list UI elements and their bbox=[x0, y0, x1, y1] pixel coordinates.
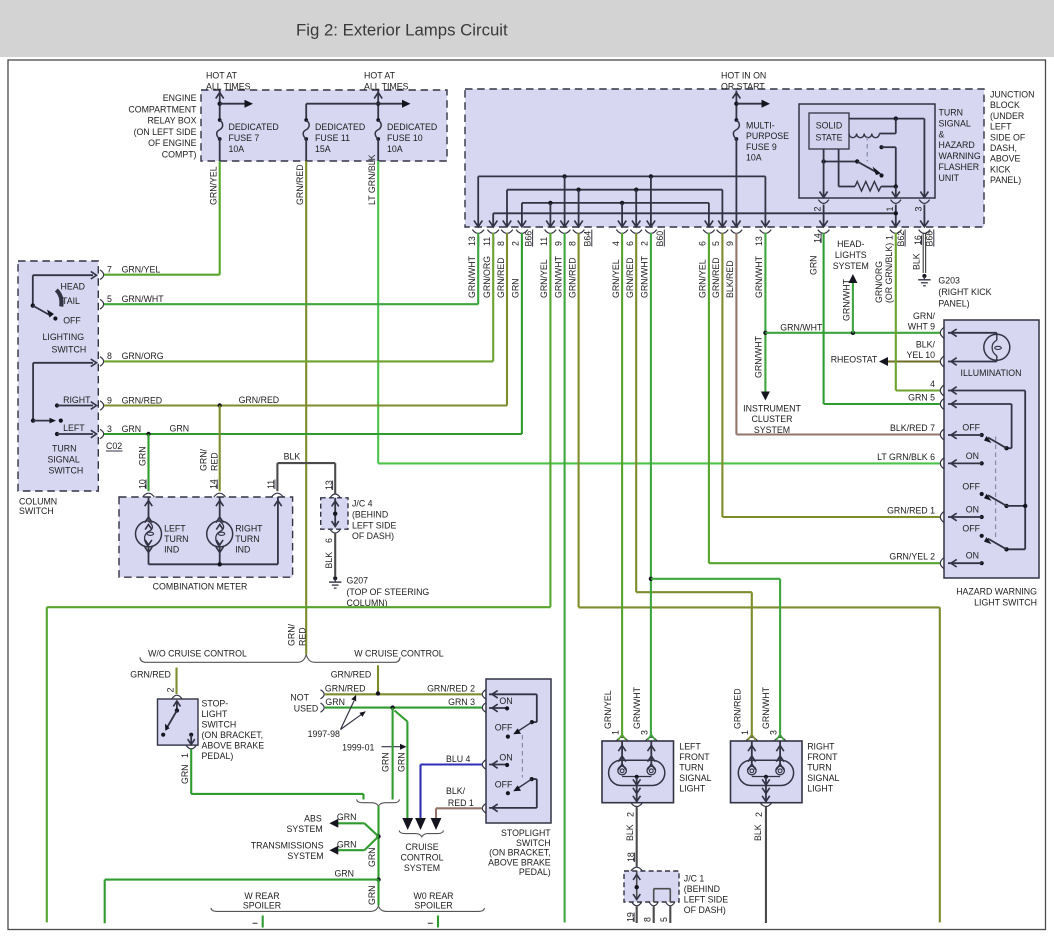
svg-text:GRN/ORG: GRN/ORG bbox=[122, 351, 164, 361]
svg-text:GRN: GRN bbox=[170, 424, 190, 434]
riser GRN/RED to junction pin 8 bbox=[506, 233, 508, 406]
dedicated fuse 7 10A bbox=[218, 118, 222, 122]
stoplight switch arm 2 bbox=[532, 778, 537, 780]
svg-text:5: 5 bbox=[711, 241, 721, 246]
svg-text:LEFT SIDE: LEFT SIDE bbox=[684, 894, 728, 904]
brace w rear spoiler / w0 rear spoiler bbox=[211, 906, 484, 911]
engine compartment relay box bbox=[201, 90, 447, 161]
svg-text:OFF: OFF bbox=[962, 423, 980, 433]
column switch box bbox=[18, 261, 98, 491]
svg-text:GRN/WHT: GRN/WHT bbox=[122, 294, 165, 304]
svg-text:BLK/RED: BLK/RED bbox=[725, 260, 735, 298]
svg-text:ON: ON bbox=[499, 696, 512, 706]
svg-text:GRN/WHT: GRN/WHT bbox=[632, 686, 642, 729]
feed arrow fuses 11/10 bbox=[377, 91, 379, 121]
svg-text:10A: 10A bbox=[387, 144, 403, 154]
svg-text:LEFT: LEFT bbox=[679, 742, 701, 752]
svg-text:GRN/RED: GRN/RED bbox=[625, 257, 635, 298]
junction block pin 2 (GRN) bbox=[521, 221, 523, 227]
meter pin 10 bbox=[143, 493, 155, 497]
node on GRN row bbox=[146, 432, 150, 436]
svg-text:3: 3 bbox=[107, 424, 112, 434]
svg-text:TAIL: TAIL bbox=[62, 296, 80, 306]
svg-text:2: 2 bbox=[754, 812, 764, 817]
svg-text:GRN: GRN bbox=[180, 764, 190, 784]
svg-text:SWITCH: SWITCH bbox=[19, 506, 54, 516]
svg-text:2: 2 bbox=[640, 241, 650, 246]
hazard warning light switch box bbox=[944, 320, 1039, 578]
svg-text:4: 4 bbox=[611, 241, 621, 246]
svg-text:2: 2 bbox=[813, 207, 823, 212]
wire GRN 1997-98 branch down to merge bbox=[392, 708, 394, 800]
svg-text:BLK: BLK bbox=[911, 253, 921, 270]
svg-text:B64: B64 bbox=[583, 231, 593, 247]
svg-text:ON: ON bbox=[966, 505, 979, 515]
svg-text:MULTI-: MULTI- bbox=[746, 121, 775, 131]
svg-text:GRN/YEL: GRN/YEL bbox=[698, 259, 708, 298]
column switch pin 7 row (GRN/YEL) bbox=[100, 270, 104, 280]
svg-text:BLK/RED 7: BLK/RED 7 bbox=[890, 423, 935, 433]
wire BLK junction pin 16 to ground G203 bbox=[922, 234, 924, 274]
svg-text:HAZARD: HAZARD bbox=[939, 140, 975, 150]
svg-text:15A: 15A bbox=[315, 144, 331, 154]
svg-text:W0 REAR: W0 REAR bbox=[413, 891, 453, 901]
meter pin 11 bbox=[272, 493, 284, 497]
svg-text:GRN/: GRN/ bbox=[199, 448, 209, 471]
svg-text:GRN/WHT: GRN/WHT bbox=[754, 255, 764, 298]
hazard switch 1 (pins 7/6) bbox=[1004, 446, 1008, 450]
junction block pin 11 (GRN/YEL) bbox=[549, 221, 551, 227]
svg-text:4: 4 bbox=[930, 379, 935, 389]
junction block pin 13 (GRN/WHT) bbox=[764, 221, 766, 227]
svg-text:W/O CRUISE CONTROL: W/O CRUISE CONTROL bbox=[148, 649, 247, 659]
stoplight switch arm 1 bbox=[532, 721, 537, 723]
svg-text:SYSTEM: SYSTEM bbox=[287, 851, 323, 861]
svg-text:2: 2 bbox=[165, 688, 175, 693]
svg-text:B66: B66 bbox=[523, 231, 533, 247]
svg-text:PANEL): PANEL) bbox=[938, 299, 969, 309]
wire GRN/RED junction pin 5 down to hazard pin 1 bbox=[721, 233, 723, 517]
svg-text:8: 8 bbox=[567, 241, 577, 246]
svg-text:GRN/RED: GRN/RED bbox=[567, 257, 577, 298]
junction block pin 13 (GRN/WHT) bbox=[477, 221, 479, 227]
svg-text:GRN/WHT: GRN/WHT bbox=[761, 686, 771, 729]
spoiler option stub right bbox=[437, 916, 439, 928]
svg-text:GRN/RED: GRN/RED bbox=[295, 164, 305, 205]
svg-text:DEDICATED: DEDICATED bbox=[387, 122, 437, 132]
svg-text:SIGNAL: SIGNAL bbox=[939, 118, 971, 128]
J/C 1 bottom stubs bbox=[636, 906, 638, 923]
flasher fixed contact bbox=[879, 145, 883, 149]
svg-text:COMPARTMENT: COMPARTMENT bbox=[128, 104, 197, 114]
svg-text:JUNCTION: JUNCTION bbox=[990, 90, 1034, 100]
svg-text:9: 9 bbox=[553, 241, 563, 246]
junction connector J/C 4 bbox=[321, 498, 348, 529]
svg-text:SPOILER: SPOILER bbox=[243, 901, 281, 911]
svg-text:GRN/WHT: GRN/WHT bbox=[754, 335, 764, 378]
riser GRN/ORG to junction pin 11 bbox=[492, 233, 494, 361]
wire GRN down to spoiler brace bbox=[377, 880, 379, 906]
svg-text:FRONT: FRONT bbox=[679, 752, 710, 762]
svg-text:CRUISE: CRUISE bbox=[405, 842, 438, 852]
svg-text:ABOVE BRAKE: ABOVE BRAKE bbox=[488, 857, 551, 867]
hazard switch pin row y=563.2 bbox=[940, 558, 944, 569]
bus rail GRN/RED (L2) bbox=[507, 189, 722, 191]
ground G203 bbox=[922, 274, 926, 278]
svg-text:WHT 9: WHT 9 bbox=[908, 321, 935, 331]
svg-text:1: 1 bbox=[885, 207, 895, 212]
svg-text:HAZARD WARNING: HAZARD WARNING bbox=[956, 587, 1037, 597]
svg-text:GRN/WHT: GRN/WHT bbox=[467, 255, 477, 298]
svg-text:SIGNAL: SIGNAL bbox=[48, 455, 80, 465]
svg-text:HOT IN ON: HOT IN ON bbox=[721, 71, 766, 81]
hazard switch pin row y=517 bbox=[940, 512, 944, 523]
svg-text:TURN: TURN bbox=[52, 444, 76, 454]
wire GRN/ORG junction pin 1 down to hazard pin 4 bbox=[895, 233, 897, 391]
svg-text:TURN: TURN bbox=[679, 763, 703, 773]
svg-text:OFF: OFF bbox=[495, 722, 513, 732]
svg-text:OF ENGINE: OF ENGINE bbox=[148, 138, 197, 148]
dedicated fuse 11 15A bbox=[304, 118, 308, 122]
svg-text:RELAY BOX: RELAY BOX bbox=[147, 116, 196, 126]
hazard switch pin row y=404 bbox=[940, 399, 944, 410]
wire GRN/YEL junction pin 11 long run bbox=[549, 233, 551, 607]
junction block pin 9 (GRN/WHT) bbox=[564, 221, 566, 227]
column switch pin 3 row (GRN) bbox=[100, 429, 104, 439]
svg-text:1997-98: 1997-98 bbox=[308, 729, 340, 739]
svg-text:SWITCH: SWITCH bbox=[202, 720, 237, 730]
svg-text:ABOVE BRAKE: ABOVE BRAKE bbox=[202, 741, 265, 751]
svg-text:PEDAL): PEDAL) bbox=[202, 751, 234, 761]
svg-text:5: 5 bbox=[659, 917, 669, 922]
svg-text:GRN/RED: GRN/RED bbox=[325, 684, 366, 694]
svg-text:GRN/YEL: GRN/YEL bbox=[611, 259, 621, 298]
svg-text:GRN/RED 2: GRN/RED 2 bbox=[427, 684, 475, 694]
svg-text:SWITCH: SWITCH bbox=[516, 838, 551, 848]
svg-text:OFF: OFF bbox=[962, 523, 980, 533]
svg-text:6: 6 bbox=[698, 241, 708, 246]
wire LT GRN/BLK to hazard pin 6 bbox=[378, 462, 940, 464]
brace w/o / w cruise control bbox=[140, 654, 400, 662]
svg-text:RIGHT: RIGHT bbox=[235, 524, 263, 534]
svg-text:NOT: NOT bbox=[290, 692, 309, 702]
wire BLK/YEL rheostat to hazard pin 10 bbox=[879, 357, 888, 366]
svg-text:G207: G207 bbox=[347, 576, 369, 586]
svg-text:ENGINE: ENGINE bbox=[163, 93, 197, 103]
svg-text:B62: B62 bbox=[896, 231, 906, 247]
svg-text:GRN/YEL: GRN/YEL bbox=[539, 259, 549, 298]
svg-text:ON: ON bbox=[966, 451, 979, 461]
node GRN/WHT row to hazard pin 9 bbox=[763, 331, 767, 335]
wire GRN/RED junction pin 6 to right front turn signal bbox=[635, 233, 637, 592]
svg-text:RED: RED bbox=[298, 627, 308, 646]
hazard switch 3 (pins 2) bbox=[1007, 548, 1026, 550]
svg-text:OFF: OFF bbox=[962, 482, 980, 492]
svg-text:5: 5 bbox=[107, 294, 112, 304]
svg-text:TURN: TURN bbox=[807, 763, 831, 773]
column switch pin 9 row (GRN/RED) bbox=[100, 401, 104, 411]
svg-text:LEFT: LEFT bbox=[63, 423, 85, 433]
branch GRN/WHT to headlights system bbox=[851, 331, 855, 335]
svg-text:GRN: GRN bbox=[334, 869, 354, 879]
svg-text:FUSE 9: FUSE 9 bbox=[746, 142, 777, 152]
svg-text:1: 1 bbox=[740, 730, 750, 735]
branch GRN/RED to combination meter pin 14 bbox=[219, 406, 221, 492]
svg-text:10A: 10A bbox=[746, 153, 762, 163]
svg-text:GRN/ORG: GRN/ORG bbox=[482, 256, 492, 298]
hazard switch pin row y=361.5 bbox=[940, 356, 944, 367]
svg-text:RED 1: RED 1 bbox=[448, 798, 474, 808]
svg-text:GRN: GRN bbox=[367, 847, 377, 867]
junction block pin 2 (GRN/WHT) bbox=[650, 221, 652, 227]
svg-text:C02: C02 bbox=[106, 441, 122, 451]
svg-text:GRN: GRN bbox=[337, 840, 357, 850]
svg-text:LEFT: LEFT bbox=[990, 122, 1012, 132]
svg-text:9: 9 bbox=[107, 395, 112, 405]
svg-text:SWITCH: SWITCH bbox=[49, 466, 84, 476]
svg-text:ABOVE: ABOVE bbox=[990, 154, 1020, 164]
svg-text:RIGHT: RIGHT bbox=[63, 395, 91, 405]
svg-text:LIGHT SWITCH: LIGHT SWITCH bbox=[974, 598, 1037, 608]
svg-text:LT GRN/BLK: LT GRN/BLK bbox=[367, 154, 377, 205]
svg-text:&: & bbox=[939, 129, 945, 139]
flasher top wire to pin 3 bbox=[849, 118, 924, 120]
svg-text:ON: ON bbox=[966, 551, 979, 561]
right front turn signal light bbox=[731, 741, 803, 803]
svg-text:11: 11 bbox=[482, 237, 492, 246]
svg-text:6: 6 bbox=[625, 241, 635, 246]
title bar bbox=[0, 0, 1054, 57]
svg-text:COLUMN: COLUMN bbox=[19, 496, 57, 506]
svg-text:GRN/WHT: GRN/WHT bbox=[780, 322, 823, 332]
stoplight switch pin 1 hook bbox=[482, 804, 486, 814]
svg-text:BLK: BLK bbox=[753, 824, 763, 841]
flasher relay switch bbox=[824, 161, 858, 163]
flasher pin 2 internal wire bbox=[823, 149, 825, 198]
svg-text:7: 7 bbox=[107, 265, 112, 275]
junction block pin 9 (BLK/RED) bbox=[735, 221, 737, 227]
svg-text:BLOCK: BLOCK bbox=[990, 100, 1020, 110]
svg-text:1: 1 bbox=[611, 730, 621, 735]
svg-text:PANEL): PANEL) bbox=[990, 175, 1021, 185]
svg-text:INSTRUMENT: INSTRUMENT bbox=[743, 403, 801, 413]
svg-text:BLU 4: BLU 4 bbox=[446, 754, 471, 764]
hazard switch 2 (pins 1) bbox=[1004, 504, 1008, 508]
svg-text:(RIGHT KICK: (RIGHT KICK bbox=[938, 287, 991, 297]
svg-text:3: 3 bbox=[769, 730, 779, 735]
stoplight switch mechanical link (dashed) bbox=[521, 735, 523, 778]
junction block pin 8 (GRN/RED) bbox=[578, 221, 580, 227]
svg-text:COMBINATION METER: COMBINATION METER bbox=[153, 582, 248, 592]
svg-text:COMPT): COMPT) bbox=[162, 150, 197, 160]
svg-text:(ON BRACKET,: (ON BRACKET, bbox=[489, 848, 551, 858]
junction block pin 4 (GRN/YEL) bbox=[621, 221, 623, 227]
merge brace to single GRN bbox=[357, 799, 400, 806]
stoplight switch pin 2 hook bbox=[482, 690, 486, 700]
feed arrow fuse 7 bbox=[219, 91, 221, 121]
svg-text:TRANSMISSIONS: TRANSMISSIONS bbox=[251, 841, 324, 851]
svg-text:SIGNAL: SIGNAL bbox=[807, 773, 839, 783]
svg-text:DEDICATED: DEDICATED bbox=[229, 122, 279, 132]
cruise control system arrows bbox=[402, 818, 413, 830]
column switch pin 5 row (GRN/WHT) bbox=[100, 299, 104, 309]
svg-text:G203: G203 bbox=[938, 276, 960, 286]
wire GRN/RED from fuse 11 (long vertical) bbox=[305, 161, 307, 654]
svg-text:GRN/WHT: GRN/WHT bbox=[842, 278, 852, 321]
svg-text:RED: RED bbox=[210, 452, 220, 471]
turn signal & hazard warning flasher unit box bbox=[799, 104, 935, 198]
svg-text:GRN/WHT: GRN/WHT bbox=[553, 255, 563, 298]
svg-text:OFF: OFF bbox=[495, 780, 513, 790]
svg-text:(BEHIND: (BEHIND bbox=[684, 884, 720, 894]
meter internal ground bus bbox=[149, 563, 278, 565]
svg-text:ON: ON bbox=[499, 753, 512, 763]
ground G207 bbox=[333, 576, 337, 580]
svg-text:TURN: TURN bbox=[939, 108, 963, 118]
svg-text:GRN/YEL: GRN/YEL bbox=[122, 265, 161, 275]
svg-text:SYSTEM: SYSTEM bbox=[287, 824, 323, 834]
svg-text:1999-01: 1999-01 bbox=[342, 743, 374, 753]
branch GRN/WHT to right front turn signal bbox=[649, 577, 653, 581]
svg-text:SIDE OF: SIDE OF bbox=[990, 132, 1026, 142]
svg-text:GRN/RED: GRN/RED bbox=[331, 670, 372, 680]
svg-text:FUSE 11: FUSE 11 bbox=[315, 133, 350, 143]
svg-text:8: 8 bbox=[496, 241, 506, 246]
svg-text:GRN/RED: GRN/RED bbox=[239, 395, 280, 405]
svg-text:OFF: OFF bbox=[63, 316, 81, 326]
solid state box U1 bbox=[809, 113, 849, 149]
svg-text:GRN/ORG: GRN/ORG bbox=[874, 261, 884, 303]
svg-text:GRN/RED: GRN/RED bbox=[733, 688, 743, 729]
wire GRN/RED junction pin 8 long run to bottom right bbox=[578, 233, 580, 607]
junction block pin 5 (GRN/RED) bbox=[721, 221, 723, 227]
svg-text:YEL 10: YEL 10 bbox=[906, 350, 935, 360]
branch GRN to ABS system bbox=[364, 823, 378, 836]
svg-text:6: 6 bbox=[324, 538, 334, 543]
svg-text:GRN: GRN bbox=[396, 752, 406, 772]
svg-text:SWITCH: SWITCH bbox=[52, 345, 87, 355]
svg-text:GRN/RED: GRN/RED bbox=[130, 670, 171, 680]
riser GRN/WHT to junction pin 13 bbox=[477, 233, 479, 304]
svg-text:B60: B60 bbox=[655, 231, 665, 247]
svg-text:GRN: GRN bbox=[511, 278, 521, 298]
junction block pin 11 (GRN/ORG) bbox=[492, 221, 494, 227]
svg-text:USED: USED bbox=[294, 703, 318, 713]
flasher dashed link bbox=[866, 136, 868, 162]
svg-text:HEAD: HEAD bbox=[61, 282, 85, 292]
svg-text:SOLID: SOLID bbox=[816, 121, 842, 131]
branch GRN to combination meter pin 10 bbox=[147, 434, 149, 491]
svg-text:GRN 3: GRN 3 bbox=[448, 697, 475, 707]
svg-text:RHEOSTAT: RHEOSTAT bbox=[831, 355, 878, 365]
svg-text:BLK: BLK bbox=[324, 552, 334, 569]
junction wire pin13 to flasher pin1 node bbox=[493, 212, 896, 214]
svg-text:ABS: ABS bbox=[304, 814, 322, 824]
combination meter box bbox=[119, 497, 293, 577]
svg-text:LIGHT: LIGHT bbox=[807, 784, 834, 794]
junction block pin 6 (GRN/YEL) bbox=[708, 221, 710, 227]
svg-text:RIGHT: RIGHT bbox=[807, 742, 835, 752]
hazard illumination lamp bbox=[948, 332, 997, 334]
svg-text:BLK: BLK bbox=[625, 824, 635, 841]
svg-text:BLK/: BLK/ bbox=[916, 340, 936, 350]
wire GRN junction pin 14 down to hazard pin 5 bbox=[823, 233, 825, 404]
svg-text:OF DASH): OF DASH) bbox=[684, 905, 726, 915]
svg-text:DEDICATED: DEDICATED bbox=[315, 122, 365, 132]
svg-text:LEFT: LEFT bbox=[164, 524, 186, 534]
svg-text:SPOILER: SPOILER bbox=[414, 901, 452, 911]
svg-text:WARNING: WARNING bbox=[939, 151, 981, 161]
svg-text:9: 9 bbox=[725, 241, 735, 246]
svg-text:KICK: KICK bbox=[990, 164, 1011, 174]
svg-text:GRN/RED: GRN/RED bbox=[711, 257, 721, 298]
svg-text:LIGHT: LIGHT bbox=[679, 784, 706, 794]
multi-purpose fuse 9 10A bbox=[735, 91, 737, 121]
svg-text:STOP-: STOP- bbox=[202, 699, 229, 709]
svg-text:PEDAL): PEDAL) bbox=[519, 867, 551, 877]
spoiler option stub left bbox=[262, 916, 264, 928]
svg-text:GRN: GRN bbox=[337, 812, 357, 822]
bus rail GRN/YEL (L3) bbox=[522, 202, 709, 204]
junction block bbox=[465, 89, 984, 227]
svg-text:HEAD-: HEAD- bbox=[837, 239, 864, 249]
bus rail GRN/ORG (L4) bbox=[492, 213, 494, 221]
hazard switch pin row y=390.5 bbox=[940, 385, 944, 396]
svg-text:10A: 10A bbox=[229, 144, 245, 154]
svg-text:2: 2 bbox=[511, 241, 521, 246]
wire GRN/YEL from fuse 7 bbox=[219, 161, 221, 275]
flasher coil L bbox=[849, 134, 879, 138]
svg-text:SYSTEM: SYSTEM bbox=[404, 863, 440, 873]
svg-text:GRN 5: GRN 5 bbox=[908, 393, 935, 403]
wire GRN/WHT junction pin 9 long run to bottom bbox=[564, 233, 566, 923]
svg-text:GRN: GRN bbox=[808, 255, 818, 275]
svg-text:W CRUISE CONTROL: W CRUISE CONTROL bbox=[354, 649, 444, 659]
svg-text:8: 8 bbox=[642, 917, 652, 922]
junction block pin 8 (GRN/RED) bbox=[506, 221, 508, 227]
svg-text:11: 11 bbox=[539, 237, 549, 246]
svg-text:OF DASH): OF DASH) bbox=[352, 531, 394, 541]
wire GRN/WHT junction pin 2 to left front turn signal bbox=[650, 233, 652, 737]
stoplight switch box bbox=[486, 679, 551, 823]
svg-text:(UNDER: (UNDER bbox=[990, 111, 1024, 121]
wire LT GRN/BLK from fuse 10 bbox=[377, 161, 379, 463]
node GRN to rear spoiler row bbox=[376, 877, 380, 881]
svg-text:ALL TIMES: ALL TIMES bbox=[206, 81, 251, 91]
svg-text:TURN: TURN bbox=[164, 534, 188, 544]
svg-text:13: 13 bbox=[467, 236, 477, 246]
svg-text:FUSE 10: FUSE 10 bbox=[387, 133, 423, 143]
svg-text:GRN/YEL 2: GRN/YEL 2 bbox=[889, 552, 935, 562]
svg-text:1: 1 bbox=[885, 235, 895, 240]
svg-text:IND: IND bbox=[164, 545, 179, 555]
junction block pin 6 (GRN/RED) bbox=[635, 221, 637, 227]
wire GRN merged down bbox=[377, 806, 379, 880]
svg-text:GRN: GRN bbox=[380, 752, 390, 772]
svg-text:SIGNAL: SIGNAL bbox=[679, 773, 711, 783]
svg-text:GRN: GRN bbox=[122, 424, 142, 434]
wire GRN 1999-01 branch down to cruise control bbox=[395, 711, 408, 722]
svg-text:1: 1 bbox=[180, 753, 190, 758]
riser GRN to junction pin 2 bbox=[521, 233, 523, 434]
svg-text:FLASHER: FLASHER bbox=[939, 162, 980, 172]
branch GRN to transmissions system bbox=[364, 836, 378, 850]
svg-text:13: 13 bbox=[754, 236, 764, 246]
svg-text:GRN/: GRN/ bbox=[287, 623, 297, 646]
J/C 1 internal bus bar bbox=[653, 889, 655, 902]
svg-text:(ON LEFT SIDE: (ON LEFT SIDE bbox=[134, 127, 197, 137]
wire GRN/YEL junction pin 4 to left front turn signal bbox=[621, 233, 623, 737]
